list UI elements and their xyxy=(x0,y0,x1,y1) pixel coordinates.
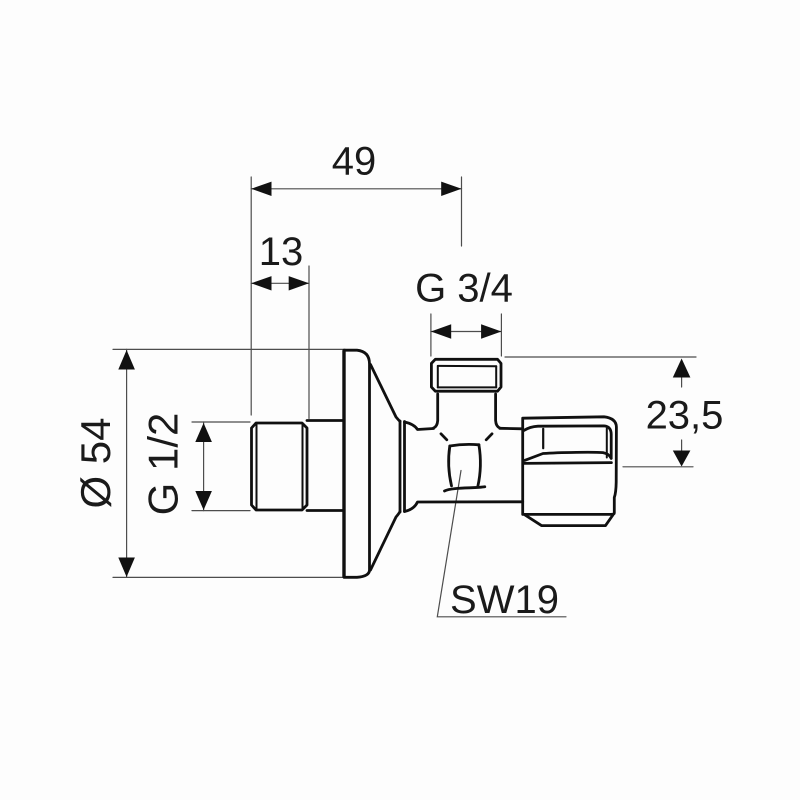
outlet nut face panel top xyxy=(523,426,611,458)
svg-text:Ø 54: Ø 54 xyxy=(72,417,119,508)
svg-text:13: 13 xyxy=(259,230,304,274)
outlet nut facet left vertical xyxy=(542,429,544,448)
collar left vertical xyxy=(399,421,402,512)
dimension line G 3/4 xyxy=(431,331,502,333)
arrowhead G 1/2 top xyxy=(195,423,212,442)
extension line left (shared by dims 49 and 13) xyxy=(250,177,252,415)
barrel SW19 bottom edge xyxy=(445,487,485,491)
cap inner right line xyxy=(495,366,497,387)
outlet nut facet lower line xyxy=(523,461,611,465)
extension line top of dim 23,5 xyxy=(505,356,696,358)
dimension line 23,5 lower stem xyxy=(681,440,683,453)
outlet nut facet upper line xyxy=(525,452,612,460)
barrel SW19 left edge xyxy=(449,446,452,486)
dimension line 49 xyxy=(251,188,461,190)
extension line top of dim dia 54 xyxy=(113,348,345,350)
cap G 3/4 outer (chamfered rect) xyxy=(431,359,501,391)
connector piece bottom edge xyxy=(307,509,344,512)
extension line bottom of dim G 1/2 xyxy=(192,510,250,512)
extension line left of dim G 3/4 xyxy=(430,314,432,356)
inlet stub thread face inner line xyxy=(256,424,258,509)
funnel tick left xyxy=(441,434,447,440)
cap inner bottom line xyxy=(438,386,496,388)
arrowhead 49 left xyxy=(251,182,271,196)
barrel SW19 right edge xyxy=(478,445,481,487)
outlet nut outer contour xyxy=(523,417,617,515)
outlet nut bottom chamfer xyxy=(525,515,613,526)
extension line bottom of dim dia 54 xyxy=(113,576,345,578)
cap inner left line xyxy=(437,366,439,387)
svg-text:G 3/4: G 3/4 xyxy=(415,267,513,311)
arrowhead 23,5 down xyxy=(673,451,691,467)
leader line SW19 xyxy=(437,471,566,617)
body bottom edge with fillet xyxy=(405,502,523,512)
svg-text:G 1/2: G 1/2 xyxy=(140,413,187,516)
barrel SW19 top edge xyxy=(450,444,479,446)
arrowhead G 1/2 bottom xyxy=(195,491,212,510)
arrowhead 13 left xyxy=(251,276,271,290)
body top edge left with fillet xyxy=(405,422,434,430)
neck left edge with flare xyxy=(434,394,438,428)
arrowhead 49 right xyxy=(441,182,461,196)
dimension line G 1/2 xyxy=(203,422,205,511)
arrowhead dia 54 bottom xyxy=(118,558,135,578)
neck right edge with flare xyxy=(496,394,500,428)
inlet stub inner right line xyxy=(302,424,304,509)
flange left edge xyxy=(342,351,345,577)
collar right vertical xyxy=(403,422,406,512)
extension line right of dim 49 xyxy=(461,177,463,246)
connector piece top edge xyxy=(307,419,344,422)
inlet stub G 1/2 outer (chamfered rect) xyxy=(252,423,308,510)
body top edge right xyxy=(500,427,523,430)
arrowhead 13 right xyxy=(289,276,309,290)
extension line top of dim G 1/2 xyxy=(192,421,250,423)
funnel tick right xyxy=(486,434,492,440)
extension line bottom of dim 23,5 xyxy=(623,466,693,468)
svg-text:49: 49 xyxy=(332,139,377,183)
extension line right of dim 13 xyxy=(308,266,310,419)
outlet nut face panel inner right line xyxy=(606,429,608,458)
cap inner top line xyxy=(438,365,496,367)
cone bottom line xyxy=(371,512,401,571)
svg-text:23,5: 23,5 xyxy=(646,394,724,438)
dimension line dia 54 xyxy=(126,349,128,577)
dimension line 13 xyxy=(251,282,309,284)
extension line right of dim G 3/4 xyxy=(500,314,502,356)
arrowhead 23,5 up xyxy=(673,359,691,378)
flange outer contour xyxy=(344,350,370,577)
arrowhead G 3/4 left xyxy=(431,324,451,338)
cone top line xyxy=(371,365,401,422)
svg-text:SW19: SW19 xyxy=(450,578,559,622)
dimension line 23,5 upper stem xyxy=(681,374,683,387)
arrowhead dia 54 top xyxy=(118,350,135,370)
arrowhead G 3/4 right xyxy=(481,324,501,338)
